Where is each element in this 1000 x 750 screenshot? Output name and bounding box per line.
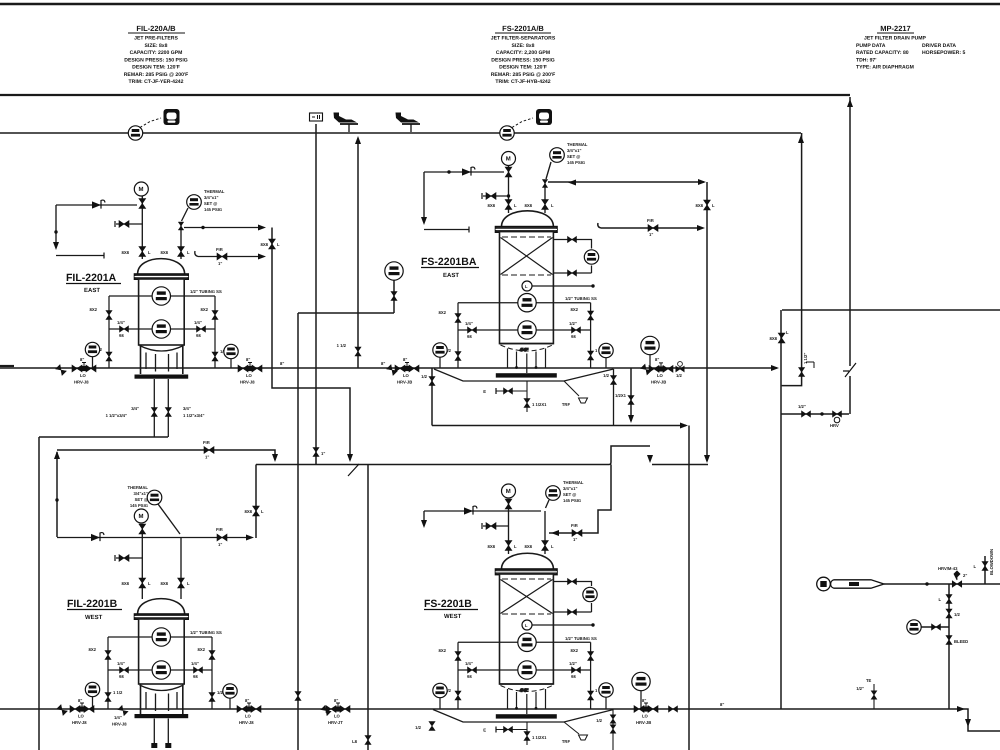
globe valve diag (392,370) bbox=[387, 365, 398, 376]
wire: V256 to B cluster bbox=[255, 465, 257, 539]
FIR valve drain (577,533) bbox=[572, 530, 582, 537]
actuated valve HRV/M-43 (957,584) bbox=[952, 581, 962, 587]
svg-text:LO: LO bbox=[245, 714, 252, 719]
wire: vertical x=781 right collector bbox=[780, 310, 782, 709]
drain funnel FS-BA bbox=[564, 381, 579, 396]
wire: H y=313 bbox=[298, 312, 394, 314]
wire: LC stems bbox=[440, 355, 650, 369]
svg-text:8X8: 8X8 bbox=[245, 509, 253, 514]
svg-text:HRV-J8: HRV-J8 bbox=[239, 720, 254, 725]
check valve (468,172) bbox=[462, 167, 475, 176]
check valve (98,205) bbox=[92, 200, 105, 209]
FIR valve B (222,537.5) bbox=[217, 534, 227, 541]
wire: FIR line y=228 bbox=[598, 223, 702, 228]
valve 8X8 on V272 (272,244) bbox=[269, 239, 276, 249]
pump motor circle bbox=[817, 577, 831, 591]
svg-text:L: L bbox=[148, 250, 151, 255]
svg-text:98: 98 bbox=[196, 333, 201, 338]
valve (590.6,355.5) bbox=[588, 351, 594, 360]
vent end tick bbox=[103, 253, 105, 259]
svg-text:1/2: 1/2 bbox=[954, 612, 960, 617]
svg-text:1 1/2: 1 1/2 bbox=[337, 343, 347, 348]
valve 8X8 left riser (142.3,252) bbox=[139, 247, 146, 257]
LSH circle (641,681.5) bbox=[632, 672, 650, 690]
junction dot discharge bbox=[925, 582, 928, 585]
wire: left loop vertical bbox=[457, 642, 459, 709]
wire: left loop vertical bbox=[457, 303, 459, 368]
check valve (470,511) bbox=[464, 506, 477, 515]
valve 8X8 right riser (181,252) bbox=[178, 247, 185, 257]
svg-text:LO: LO bbox=[334, 714, 341, 719]
sample valve stub bbox=[496, 390, 527, 392]
svg-text:1/4": 1/4" bbox=[191, 661, 199, 666]
svg-text:L: L bbox=[514, 544, 517, 549]
svg-text:HRV-JB: HRV-JB bbox=[397, 380, 412, 385]
wire: lower process line y=709 bbox=[0, 709, 1000, 731]
vent stub w/ valve (874,696) bbox=[873, 684, 875, 709]
wire: tap1 y=302.7 bbox=[458, 302, 591, 304]
vessel FS-2201B internals bbox=[502, 578, 551, 580]
wire: MOV line y=537.5 bbox=[57, 537, 250, 539]
svg-text:98: 98 bbox=[467, 674, 472, 679]
title block FS-2201A/B bbox=[491, 24, 556, 85]
valve drain leg right (168.3,412) bbox=[165, 408, 171, 417]
svg-text:DESIGN PRESS: 150 PSIG: DESIGN PRESS: 150 PSIG bbox=[124, 57, 187, 63]
arrow into V272 bbox=[258, 225, 266, 231]
svg-text:1/2: 1/2 bbox=[596, 718, 602, 723]
svg-text:LO: LO bbox=[403, 373, 410, 378]
wire: V394 gauge stem bbox=[393, 280, 395, 313]
flow arrow FIR line into x=707 bbox=[697, 225, 705, 231]
svg-text:1": 1" bbox=[218, 261, 222, 266]
vessel FS-2201BA bottom head bbox=[500, 343, 554, 345]
wire: PSV diagonal bbox=[182, 208, 189, 221]
relief valve on header x=344 bbox=[334, 113, 359, 133]
junction dot V56 bbox=[54, 230, 57, 233]
wire: tap2 y=329 bbox=[109, 328, 215, 330]
wire: PSV header y=227.5 bbox=[184, 227, 263, 229]
block valve group FIL-A inlet (84,368) bbox=[72, 363, 96, 372]
wire: tap2 y=670 bbox=[458, 669, 591, 671]
valve (124,329) bbox=[120, 326, 129, 332]
LC circle right (606,690) bbox=[599, 683, 613, 697]
svg-text:FS-2201BA: FS-2201BA bbox=[421, 256, 477, 268]
svg-text:98: 98 bbox=[119, 674, 124, 679]
vessel FS-2201BA internals bbox=[502, 236, 551, 238]
svg-text:1": 1" bbox=[205, 455, 209, 460]
svg-text:THERMAL: THERMAL bbox=[128, 485, 149, 490]
svg-text:3/4"x1": 3/4"x1" bbox=[563, 486, 577, 491]
valve on V368 (368,740) bbox=[365, 736, 371, 745]
valve (458,318) bbox=[455, 314, 461, 323]
svg-text:HRV-J8: HRV-J8 bbox=[112, 722, 127, 727]
flow arrow down V350 into drain header bbox=[347, 454, 353, 462]
pump body capsule bbox=[831, 580, 884, 588]
svg-text:TRIM: CT-JF-HYB-4242: TRIM: CT-JF-HYB-4242 bbox=[495, 79, 550, 85]
wire: L tap bbox=[532, 624, 593, 626]
svg-text:3/4": 3/4" bbox=[131, 406, 139, 411]
svg-text:8X8: 8X8 bbox=[488, 203, 496, 208]
motor circle M (508.5,494) bbox=[502, 484, 516, 498]
svg-text:HRV/M-43: HRV/M-43 bbox=[938, 566, 958, 571]
svg-text:1 1/2"x3/4": 1 1/2"x3/4" bbox=[106, 413, 127, 418]
svg-text:FIR: FIR bbox=[203, 440, 210, 445]
wire: right loop vertical bbox=[590, 303, 592, 368]
wire: riser left nozzle B bbox=[141, 528, 143, 599]
valve (124,670) bbox=[120, 667, 129, 673]
svg-text:1/2X1: 1/2X1 bbox=[615, 393, 627, 398]
wire: V56 vent drop bbox=[55, 205, 57, 247]
svg-text:8X2: 8X2 bbox=[571, 648, 579, 653]
svg-text:WEST: WEST bbox=[444, 613, 462, 620]
gauge circle (914,627) bbox=[907, 620, 921, 634]
vessel FIL-2201B top flange bbox=[135, 614, 189, 619]
check valve (97,537.5) bbox=[91, 533, 104, 542]
flow arrow down V631 into H5 bbox=[628, 415, 634, 423]
svg-text:EAST: EAST bbox=[84, 287, 100, 294]
valve on stub (489,526) bbox=[486, 523, 496, 530]
svg-text:1/2" TUBING SS: 1/2" TUBING SS bbox=[565, 296, 597, 301]
flow arrow right end of lower line bbox=[957, 706, 965, 712]
svg-text:THERMAL: THERMAL bbox=[204, 189, 225, 194]
dot end of L tap bbox=[591, 284, 594, 287]
block valve group FS-BA outlet (661,368.9) bbox=[649, 363, 673, 372]
svg-text:L: L bbox=[973, 564, 976, 569]
svg-text:3/4"x1": 3/4"x1" bbox=[567, 148, 581, 153]
svg-text:FIR: FIR bbox=[571, 523, 578, 528]
LC circle left (92.5,689.5) bbox=[85, 682, 99, 696]
wire: stub at y=224 bbox=[116, 223, 142, 225]
valve on V781 (781,338) bbox=[778, 333, 785, 343]
instrument square x=544 bbox=[536, 109, 552, 125]
svg-text:SET @: SET @ bbox=[567, 154, 580, 159]
svg-text:HRV-JT: HRV-JT bbox=[328, 720, 343, 725]
gauge circle lower (527,330) bbox=[518, 321, 536, 339]
svg-text:L: L bbox=[261, 509, 264, 514]
svg-text:8": 8" bbox=[245, 698, 249, 703]
svg-text:THERMAL: THERMAL bbox=[567, 142, 588, 147]
svg-text:BLOWDOWN: BLOWDOWN bbox=[989, 549, 994, 575]
svg-text:MP-2217: MP-2217 bbox=[880, 24, 910, 33]
wire: V631 drop bbox=[630, 368, 632, 421]
wire: PSV diagonal B bbox=[158, 504, 180, 534]
valve internals top (572,242) bbox=[568, 236, 577, 242]
svg-text:DESIGN TEM: 120'F: DESIGN TEM: 120'F bbox=[132, 65, 180, 71]
valve 8X8 right riser (545,205) bbox=[542, 200, 549, 210]
valve internals top (572,578) bbox=[568, 578, 577, 584]
svg-text:LO: LO bbox=[78, 714, 85, 719]
svg-text:L: L bbox=[525, 623, 528, 628]
wire: PSV diagonal bbox=[546, 162, 551, 179]
svg-text:EAST: EAST bbox=[443, 272, 459, 279]
svg-text:8X2: 8X2 bbox=[89, 647, 97, 652]
svg-text:RATED CAPACITY: 80: RATED CAPACITY: 80 bbox=[856, 50, 909, 56]
flow arrow down after jump-over bbox=[647, 455, 653, 463]
flow arrow up V358 into top header bbox=[355, 136, 361, 144]
wire: stub at y=558 bbox=[116, 557, 142, 559]
svg-text:4'-0": 4'-0" bbox=[520, 348, 528, 352]
valve (215,356.5) bbox=[212, 352, 218, 361]
valve (108,697) bbox=[105, 693, 111, 702]
gauge circle internals (591,593.5) bbox=[583, 587, 597, 601]
wire: jump left vertical bbox=[609, 462, 611, 465]
valve drain leg left (154.3,412) bbox=[151, 408, 157, 417]
wire: FIR line y=256.5 bbox=[195, 251, 263, 257]
svg-text:8": 8" bbox=[642, 698, 646, 703]
drain funnel FS-B bbox=[564, 722, 579, 734]
LC circle left (440,350) bbox=[433, 343, 447, 357]
wire: stub at y=196 bbox=[483, 195, 509, 197]
valve (109,315) bbox=[106, 311, 112, 320]
svg-text:HRV-JB: HRV-JB bbox=[651, 380, 666, 385]
wire: H6 y=437 bbox=[39, 436, 168, 438]
valve on V432 (432,398) bbox=[429, 377, 435, 386]
bleed valve stub (985,566) bbox=[982, 562, 988, 571]
svg-text:8X2: 8X2 bbox=[439, 310, 447, 315]
gauge circle lower (527,670) bbox=[518, 661, 536, 679]
motor circle M (141.3,521)? bbox=[134, 509, 148, 523]
svg-text:8": 8" bbox=[720, 702, 724, 707]
wire: vertical drop x=850 from top header bbox=[849, 97, 851, 414]
wire: main top header y=133 bbox=[0, 132, 801, 134]
vessel FS-2201B shell bbox=[500, 574, 554, 684]
svg-text:TE: TE bbox=[866, 678, 872, 683]
wire: vent stub bbox=[56, 255, 104, 257]
spec break on V850 (850,370) bbox=[843, 363, 856, 377]
drain leg terminals FIL-2201B bbox=[151, 743, 157, 748]
wire: tap2 y=670 bbox=[108, 669, 212, 671]
wire: right loop vertical bbox=[214, 296, 216, 368]
svg-text:8": 8" bbox=[78, 698, 82, 703]
valve on V394 (394,296) bbox=[391, 292, 397, 301]
svg-text:SIZE: 8x8: SIZE: 8x8 bbox=[145, 43, 168, 49]
svg-text:L: L bbox=[187, 250, 190, 255]
svg-text:2": 2" bbox=[963, 573, 967, 578]
wire: L tap bbox=[532, 285, 593, 287]
svg-text:HRV-J8: HRV-J8 bbox=[240, 380, 255, 385]
L sight circle (525,624.5) bbox=[522, 620, 532, 630]
wire: cross line y=414 bbox=[781, 413, 849, 415]
wire: PSV diagonal bbox=[546, 500, 550, 508]
svg-text:FIR: FIR bbox=[216, 527, 223, 532]
svg-text:HRV-J8: HRV-J8 bbox=[72, 720, 87, 725]
PSV thermal relief B (154.5,497.5) bbox=[147, 490, 162, 505]
wire: right loop vertical bbox=[211, 637, 213, 709]
valve (590.6,656) bbox=[588, 652, 594, 661]
wire: pump discharge y=584 bbox=[884, 583, 1000, 585]
manifold trough under FS-2201BA bbox=[434, 369, 614, 381]
label FS-2201B bbox=[424, 598, 478, 620]
svg-text:DRIVER DATA: DRIVER DATA bbox=[922, 43, 956, 49]
drain legs below FIL-2201B bbox=[154, 719, 168, 744]
svg-text:TDH: 97': TDH: 97' bbox=[856, 57, 876, 63]
vessel FIL-2201B skirt bbox=[141, 684, 183, 714]
valve on V358 (358,351.5) bbox=[355, 347, 361, 356]
block valve group FS-B outlet (646,709) bbox=[634, 703, 658, 712]
wire: LC stems bbox=[440, 691, 641, 710]
svg-text:8": 8" bbox=[80, 357, 84, 362]
valve (576,670) bbox=[572, 667, 581, 673]
tick (114,224) bbox=[114, 221, 116, 227]
svg-text:8": 8" bbox=[655, 357, 659, 362]
valve (215,315) bbox=[212, 311, 218, 320]
valve 8X8 on V256 (256,511) bbox=[253, 506, 260, 516]
stub valve under FS-B manifold bbox=[526, 723, 528, 746]
block valve group FIL-A outlet (250,368) bbox=[238, 363, 262, 372]
svg-text:8X2: 8X2 bbox=[90, 307, 98, 312]
wire: V39 long left vertical bbox=[38, 437, 40, 750]
hose valve (680,369) bbox=[676, 362, 685, 372]
wire: riser right nozzle bbox=[180, 222, 182, 259]
gauge circle lower (161.3,329) bbox=[152, 320, 170, 338]
svg-text:1/2: 1/2 bbox=[676, 373, 682, 378]
svg-text:L: L bbox=[525, 284, 528, 289]
svg-text:8X2: 8X2 bbox=[439, 648, 447, 653]
svg-text:HORSEPOWER: 5: HORSEPOWER: 5 bbox=[922, 50, 965, 56]
valve below PSV (545,181) bbox=[542, 180, 547, 188]
wire: LC stems bbox=[93, 357, 232, 368]
valve (212,697) bbox=[209, 693, 215, 702]
svg-text:1/4": 1/4" bbox=[117, 320, 125, 325]
LC circle right (230,691) bbox=[223, 684, 237, 698]
valve on V298 (298,696) bbox=[295, 692, 301, 701]
svg-text:FS-2201B: FS-2201B bbox=[424, 598, 472, 610]
wire: V298 long vertical bbox=[297, 313, 299, 750]
svg-text:1/2": 1/2" bbox=[856, 686, 864, 691]
PSV thermal relief (194,202) bbox=[187, 195, 202, 210]
globe valve diag (646,369.5) bbox=[641, 364, 652, 375]
svg-text:1": 1" bbox=[649, 232, 653, 237]
svg-text:8X8: 8X8 bbox=[770, 336, 778, 341]
vessel FS-2201BA shell bbox=[500, 232, 554, 344]
tick arrow near V801 bbox=[806, 362, 814, 368]
off-page stub dash bbox=[0, 365, 14, 367]
svg-text:1/4": 1/4" bbox=[117, 661, 125, 666]
svg-text:FIL-2201A: FIL-2201A bbox=[66, 272, 117, 284]
wire: V611 to B separator cluster bbox=[549, 465, 611, 534]
MOV valve (142.3,530) bbox=[139, 524, 146, 534]
FIR valve (222,256.5) bbox=[217, 253, 227, 260]
vessel FS-2201BA skirt slats bbox=[508, 349, 546, 374]
wire: V424B vent drop bbox=[423, 511, 425, 525]
valve (576,330) bbox=[572, 327, 581, 333]
PSV thermal relief (553,493) bbox=[546, 486, 561, 501]
svg-text:8X2: 8X2 bbox=[198, 647, 206, 652]
svg-text:WEST: WEST bbox=[85, 614, 103, 621]
motor circle M (508.5,158.5) bbox=[502, 152, 516, 166]
block valve group FS-B inlet (338,709) bbox=[326, 703, 350, 712]
wire: left loop vertical bbox=[108, 296, 110, 368]
flow arrow into drop x=707 bbox=[698, 179, 706, 185]
vent end tick bbox=[468, 227, 470, 233]
svg-text:4'-0": 4'-0" bbox=[520, 689, 528, 693]
flow arrow up into top border header bbox=[847, 99, 853, 107]
label FS-2201BA bbox=[421, 256, 479, 279]
flow arrow down from H7 into drain header bbox=[272, 454, 278, 462]
svg-text:REMAR: 285 PSIG @ 200'F: REMAR: 285 PSIG @ 200'F bbox=[491, 72, 556, 78]
svg-text:145 PSIG: 145 PSIG bbox=[567, 160, 585, 165]
svg-text:98: 98 bbox=[193, 674, 198, 679]
svg-text:1/4": 1/4" bbox=[465, 661, 473, 666]
svg-text:98: 98 bbox=[571, 674, 576, 679]
svg-text:HRV-J8: HRV-J8 bbox=[74, 380, 89, 385]
vessel FS-2201BA bottom flange bbox=[496, 373, 557, 377]
svg-text:1 1/2"x3/4": 1 1/2"x3/4" bbox=[183, 413, 204, 418]
arrow into V272 lower bbox=[258, 254, 266, 260]
vessel FIL-2201A dome bbox=[138, 259, 185, 274]
svg-text:1/4": 1/4" bbox=[465, 321, 473, 326]
svg-text:1/2" TUBING SS: 1/2" TUBING SS bbox=[565, 636, 597, 641]
FIR valve on H7 (209,450) bbox=[204, 447, 214, 454]
wire: riser right nozzle bbox=[544, 181, 546, 213]
svg-text:3/4"x1": 3/4"x1" bbox=[134, 491, 148, 496]
vent arrow bbox=[421, 217, 427, 225]
svg-text:SET @: SET @ bbox=[563, 492, 576, 497]
wire: instr link at 927 bbox=[921, 626, 949, 628]
svg-text:8X8: 8X8 bbox=[122, 250, 130, 255]
wire: dashed instrument link bbox=[512, 118, 533, 128]
junction dot riser stub (508.5,196) bbox=[507, 194, 510, 197]
flow arrow right end of upper process line bbox=[771, 365, 779, 371]
gauge circle internals (591,257) bbox=[584, 250, 598, 264]
svg-text:E: E bbox=[483, 389, 486, 394]
gauge circle lower (161.3,670) bbox=[152, 661, 170, 679]
wire: V949 drop to lower line bbox=[948, 584, 950, 709]
wire: tap1 y=637 bbox=[108, 636, 212, 638]
flow arrow down lower right elbow bbox=[965, 719, 971, 727]
svg-text:8X8: 8X8 bbox=[161, 250, 169, 255]
vessel FS-2201B dome bbox=[502, 553, 554, 569]
valve 8X8 right riser (545,546) bbox=[542, 541, 549, 551]
valve 8X8 on V707 (707,205) bbox=[704, 200, 711, 210]
wire: MOV line y=172 bbox=[424, 171, 504, 173]
manifold trough under FS-2201B bbox=[433, 710, 614, 723]
block valve group FS-BA inlet (407,368) bbox=[395, 363, 419, 372]
valve (108,655) bbox=[105, 651, 111, 660]
svg-text:145 PSIG: 145 PSIG bbox=[130, 503, 148, 508]
wire: V985 stub bbox=[984, 556, 986, 584]
valve on V432B (432,726) bbox=[429, 722, 435, 731]
border line top of sheet bbox=[0, 3, 1000, 6]
svg-text:FS-2201A/B: FS-2201A/B bbox=[502, 24, 544, 33]
valve on stub (123,224) bbox=[119, 221, 129, 228]
svg-text:L: L bbox=[551, 203, 554, 208]
globe valve diag (62,710) bbox=[57, 705, 68, 716]
valve internals bottom (572,613) bbox=[568, 609, 577, 615]
svg-text:8X8: 8X8 bbox=[161, 581, 169, 586]
vent arrow bbox=[53, 242, 59, 250]
valve (458,695.5) bbox=[455, 691, 461, 700]
svg-text:8": 8" bbox=[403, 357, 407, 362]
valve (458,356) bbox=[455, 352, 461, 361]
stub valve under FS-BA manifold bbox=[526, 381, 528, 412]
svg-text:E: E bbox=[483, 728, 486, 733]
vessel FIL-2201A bottom flange bbox=[135, 375, 189, 379]
small valve right slope (605,380) bbox=[613, 369, 615, 426]
svg-text:1": 1" bbox=[321, 451, 325, 456]
gauge circle upper (161.3,637) bbox=[152, 628, 170, 646]
valve (109,356.5) bbox=[106, 352, 112, 361]
wire: MOV line y=511 bbox=[424, 510, 541, 512]
instrument square x=172 bbox=[164, 109, 180, 125]
vessel FS-2201B bottom flange bbox=[496, 714, 557, 718]
svg-text:1/2: 1/2 bbox=[421, 374, 427, 379]
valve (590.6,315.5) bbox=[588, 311, 594, 320]
wire: tap1 y=642.3 bbox=[458, 641, 591, 643]
vent arrow B bbox=[421, 520, 427, 528]
svg-text:REMAR: 285 PSIG @ 200'F: REMAR: 285 PSIG @ 200'F bbox=[124, 72, 189, 78]
wire: H5 y=425.5 bbox=[432, 425, 686, 427]
